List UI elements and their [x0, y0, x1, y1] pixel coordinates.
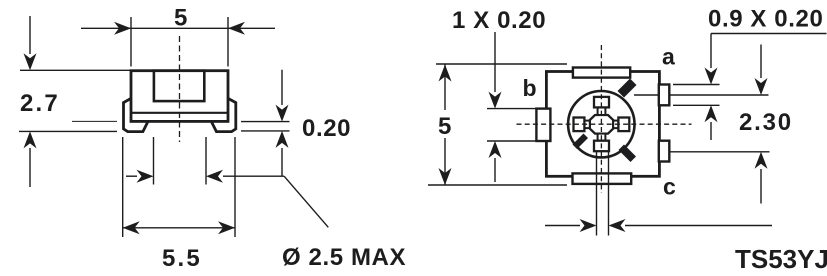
svg-text:Ø 2.5 MAX: Ø 2.5 MAX: [282, 244, 406, 271]
svg-text:c: c: [663, 174, 676, 200]
5.5 ext line left (x=122.7): [122, 137, 124, 237]
wiper connection line to terminal a: [634, 94, 769, 96]
rotor cross slot: [574, 97, 630, 151]
left tab (terminal b): [536, 109, 550, 141]
0.20 down arrow: [281, 70, 283, 105]
leader diagonal to label: [284, 176, 328, 227]
south square: [594, 141, 609, 152]
svg-text:a: a: [662, 44, 675, 70]
0.9 X 0.20 down arrow: [710, 34, 712, 69]
5.5 dim line with outward arrows: [123, 227, 235, 229]
svg-text:b: b: [523, 75, 537, 101]
0.9 X 0.20 leader horizontal: [711, 33, 827, 35]
ext line top for 2.7 (y=70.3): [20, 69, 130, 71]
horizontal centerline (right view): [517, 123, 692, 125]
slot dim arrow right-pointing: [545, 225, 580, 227]
0.20 ext line top: [241, 121, 290, 123]
2.30 down arrow: [760, 45, 762, 79]
trimmer body (top view square): [546, 72, 659, 177]
dim line 5 (top width, left view): [81, 27, 275, 29]
5 dim shaft lower: [444, 138, 446, 185]
bottom tab: [573, 173, 632, 184]
rotor mark wedge NE: [618, 79, 637, 98]
west neck: [584, 121, 589, 129]
rotor circle: [568, 91, 634, 157]
0.9 X 0.20 up arrow: [710, 122, 712, 140]
2.7 top arrow shaft: [29, 16, 31, 54]
tab a ext line bottom: [673, 104, 720, 106]
north neck: [598, 107, 606, 115]
svg-text:0.20: 0.20: [302, 115, 351, 142]
right foot terminal: [211, 98, 236, 131]
svg-text:5: 5: [174, 5, 188, 32]
svg-text:1 X 0.20: 1 X 0.20: [452, 7, 546, 34]
extension line left (x=131): [130, 17, 132, 67]
right tab (terminal a): [659, 85, 670, 106]
2.7 bottom arrow shaft: [29, 148, 31, 187]
b tab ext line top: [487, 108, 536, 110]
arrowhead pointing left at x=228: [228, 22, 245, 35]
slot dim arrow left-pointing with long tail: [625, 225, 772, 227]
center octagon: [590, 115, 613, 134]
5.5 ext line right (x=235): [234, 137, 236, 237]
inner dim arrow pointing left with tail: [223, 175, 284, 177]
trimmer body (side view): [124, 71, 236, 132]
0.20 ext line bottom: [241, 130, 290, 132]
terminal c centerline ext: [669, 151, 770, 153]
1 X 0.20 down arrow: [494, 32, 496, 92]
south neck: [598, 134, 606, 141]
arrowhead pointing right at x=131: [114, 22, 131, 35]
top tab: [573, 68, 630, 78]
centerline (left view, vertical dashed): [179, 36, 181, 142]
north square: [594, 97, 609, 108]
west square: [574, 118, 585, 132]
east square: [618, 118, 629, 132]
thin seam extension (y=121.4): [72, 120, 117, 122]
b tab ext line bottom: [487, 140, 536, 142]
1 X 0.20 up arrow: [494, 158, 496, 182]
slot extension line right: [608, 152, 610, 236]
body seam line: [131, 112, 228, 114]
extension line right (x=228): [227, 17, 229, 67]
2.30 up arrow: [760, 169, 762, 204]
vertical centerline (right view): [600, 45, 602, 193]
5 dim shaft upper: [444, 65, 446, 111]
inner ext line right (x=206): [205, 137, 207, 185]
ext line bottom for 2.7 (y=131.4): [19, 130, 117, 132]
rotor recess rectangle: [154, 71, 204, 101]
right tab (terminal c): [659, 141, 670, 162]
right view: ext line top (y=64.5): [436, 63, 567, 65]
svg-text:2.7: 2.7: [20, 90, 60, 117]
east neck: [613, 121, 618, 129]
rotor mark wedge SW (inside circle): [573, 134, 589, 150]
svg-text:5.5: 5.5: [162, 245, 202, 272]
rotor mark wedge SE: [619, 145, 637, 163]
inner dim arrow pointing right: [126, 175, 137, 177]
slot extension line left: [596, 152, 598, 236]
inner ext line left (x=153.5): [153, 137, 155, 185]
svg-text:0.9 X 0.20: 0.9 X 0.20: [708, 6, 823, 33]
svg-text:2.30: 2.30: [739, 109, 793, 136]
right view: ext line bottom (y=185): [428, 184, 567, 186]
left foot terminal: [124, 98, 149, 131]
tab a ext line top: [673, 84, 720, 86]
svg-text:5: 5: [438, 113, 452, 140]
0.20 up arrow: [281, 148, 283, 176]
svg-text:TS53YJ: TS53YJ: [735, 244, 827, 274]
